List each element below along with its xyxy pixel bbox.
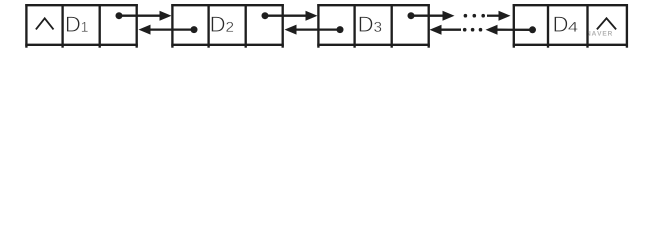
node 3 box bbox=[317, 4, 430, 48]
node 4 box bbox=[513, 4, 628, 48]
arrowhead (mid, before ellipsis) bbox=[486, 25, 498, 35]
null mark (lambda) node 1 cell 1 bbox=[36, 18, 54, 29]
forward pointer node3 -> (ellipsis) -> node4 bbox=[408, 11, 511, 21]
node 2 box bbox=[171, 4, 283, 48]
arrowhead into node1 bbox=[139, 25, 151, 35]
arrowhead into node3 bbox=[430, 25, 442, 35]
arrowhead into node2 bbox=[285, 25, 297, 35]
wire bbox=[150, 28, 195, 30]
arrowhead into node4 bbox=[499, 11, 511, 21]
label D2 bbox=[211, 16, 233, 31]
pointer origin dot (node3 next field) bbox=[408, 12, 415, 19]
watermark NAVER bbox=[586, 31, 612, 36]
pointer origin dot (node1 next field) bbox=[116, 12, 123, 19]
null mark (lambda) node 4 cell 3 bbox=[597, 18, 616, 29]
pointer origin dot (node4 prev field) bbox=[529, 26, 536, 33]
backward pointer node4 -> (ellipsis) -> node3 bbox=[430, 25, 537, 35]
pointer origin dot (node3 prev field) bbox=[337, 26, 344, 33]
wire bbox=[487, 15, 500, 17]
ellipsis dots bbox=[479, 28, 483, 32]
arrowhead (mid, before ellipsis) bbox=[443, 11, 455, 21]
forward pointer node1 -> node2 bbox=[116, 11, 172, 21]
label D3 bbox=[359, 16, 381, 31]
wire bbox=[265, 15, 307, 17]
node 1 box bbox=[25, 4, 138, 48]
arrowhead into node3 bbox=[306, 11, 318, 21]
wire bbox=[411, 15, 444, 17]
arrowhead into node2 bbox=[160, 11, 172, 21]
forward pointer node2 -> node3 bbox=[262, 11, 318, 21]
ellipsis dots bbox=[464, 14, 468, 18]
wire bbox=[497, 29, 533, 31]
wire bbox=[442, 29, 462, 31]
pointer origin dot (node2 next field) bbox=[262, 12, 269, 19]
wire bbox=[296, 28, 341, 30]
backward pointer node2 -> node1 bbox=[139, 25, 198, 35]
label D1 bbox=[67, 16, 88, 31]
backward pointer node3 -> node2 bbox=[285, 25, 344, 35]
pointer origin dot (node2 prev field) bbox=[191, 26, 198, 33]
wire bbox=[119, 15, 161, 17]
label D4 bbox=[554, 16, 577, 31]
